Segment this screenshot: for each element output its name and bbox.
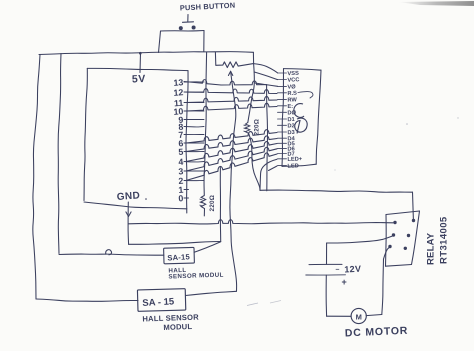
svg-text:LED –: LED –	[287, 163, 303, 170]
svg-text:0: 0	[178, 193, 184, 203]
svg-text:D2: D2	[287, 123, 294, 129]
svg-text:VSS: VSS	[287, 71, 299, 77]
svg-text:GND: GND	[116, 190, 140, 203]
svg-text:–: –	[336, 267, 340, 274]
svg-text:5: 5	[178, 147, 184, 157]
svg-text:220Ω: 220Ω	[254, 119, 261, 136]
svg-text:SA - 15: SA - 15	[142, 296, 175, 309]
svg-text:5V: 5V	[132, 73, 146, 85]
svg-text:VØ: VØ	[287, 84, 296, 90]
svg-text:E:: E:	[287, 104, 293, 110]
svg-text:12V: 12V	[344, 264, 361, 275]
svg-text:220Ω: 220Ω	[209, 195, 216, 212]
svg-text:D1: D1	[287, 117, 294, 123]
svg-text:MODUL: MODUL	[163, 322, 192, 332]
svg-text:M: M	[356, 312, 362, 321]
svg-text:SA-15: SA-15	[167, 252, 191, 262]
svg-text:RT314005: RT314005	[439, 216, 450, 264]
svg-text:R.S: R.S	[287, 91, 297, 97]
svg-text:RELAY: RELAY	[426, 232, 437, 265]
svg-text:12: 12	[173, 87, 184, 98]
svg-text:LED+: LED+	[287, 156, 303, 163]
svg-text:VCC: VCC	[287, 77, 299, 83]
svg-text:+: +	[342, 277, 347, 287]
svg-text:RW: RW	[287, 97, 297, 103]
